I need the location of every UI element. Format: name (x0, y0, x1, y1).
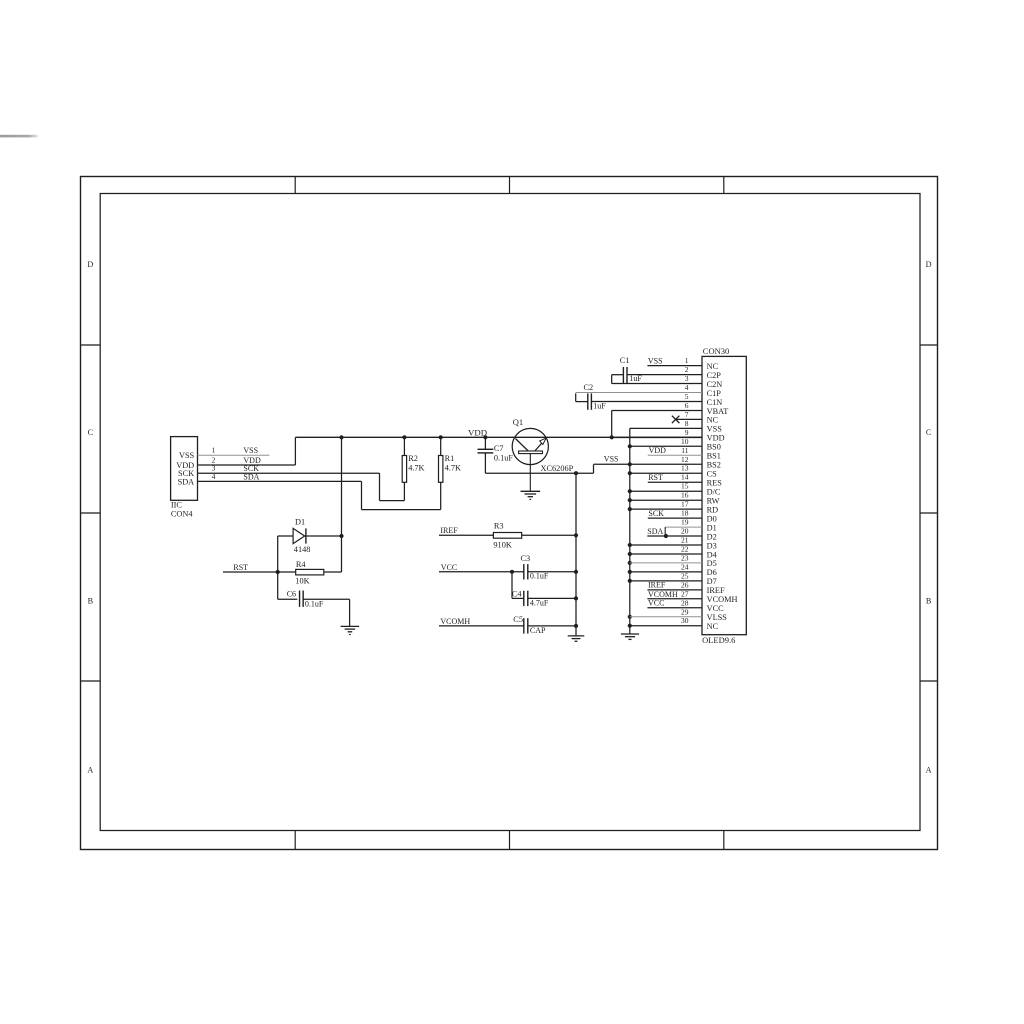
svg-text:R3: R3 (494, 521, 504, 530)
svg-text:VDD: VDD (707, 434, 725, 443)
svg-text:Q1: Q1 (513, 417, 523, 427)
svg-text:0.1uF: 0.1uF (530, 572, 549, 581)
svg-text:NC: NC (707, 416, 719, 425)
svg-text:11: 11 (681, 446, 688, 455)
svg-text:910K: 910K (493, 540, 511, 549)
svg-text:3: 3 (685, 374, 689, 383)
svg-text:C6: C6 (287, 590, 296, 599)
svg-text:9: 9 (685, 428, 689, 437)
svg-text:C7: C7 (494, 444, 504, 453)
svg-text:16: 16 (681, 491, 689, 500)
svg-text:25: 25 (681, 571, 689, 580)
svg-text:D1: D1 (295, 518, 305, 527)
svg-text:IIC: IIC (171, 501, 183, 510)
svg-text:B: B (88, 597, 94, 606)
svg-text:CAP: CAP (530, 626, 546, 635)
svg-text:C5: C5 (513, 615, 523, 624)
svg-text:BS1: BS1 (707, 452, 721, 461)
svg-text:4.7K: 4.7K (445, 463, 461, 472)
svg-text:4.7uF: 4.7uF (530, 598, 549, 607)
svg-text:B: B (926, 597, 932, 606)
svg-text:8: 8 (685, 419, 689, 428)
svg-text:C2P: C2P (707, 371, 722, 380)
svg-text:SDA: SDA (178, 477, 195, 486)
svg-text:7: 7 (685, 410, 689, 419)
svg-text:OLED9.6: OLED9.6 (702, 635, 735, 645)
svg-text:VCOMH: VCOMH (440, 617, 470, 626)
svg-text:C2: C2 (584, 383, 594, 392)
svg-text:15: 15 (681, 482, 689, 491)
svg-text:10K: 10K (295, 576, 309, 585)
svg-text:NC: NC (707, 622, 719, 631)
svg-text:C1N: C1N (707, 398, 723, 407)
svg-text:1uF: 1uF (593, 401, 606, 410)
svg-text:28: 28 (681, 598, 689, 607)
svg-text:2: 2 (685, 365, 689, 374)
svg-text:A: A (926, 766, 932, 775)
svg-text:27: 27 (681, 589, 689, 598)
svg-text:RD: RD (707, 505, 719, 514)
svg-text:D2: D2 (707, 532, 717, 541)
svg-text:D3: D3 (707, 541, 717, 550)
svg-text:VSS: VSS (648, 357, 663, 366)
svg-text:C1P: C1P (707, 389, 722, 398)
svg-text:D4: D4 (707, 550, 718, 559)
svg-text:D5: D5 (707, 559, 717, 568)
svg-text:0.1uF: 0.1uF (494, 453, 514, 462)
svg-text:1: 1 (685, 356, 689, 365)
svg-text:C: C (88, 428, 94, 437)
svg-text:C3: C3 (521, 554, 531, 563)
svg-text:D/C: D/C (707, 488, 721, 497)
svg-text:VCOMH: VCOMH (707, 595, 738, 604)
svg-text:10: 10 (681, 437, 689, 446)
svg-text:13: 13 (681, 464, 689, 473)
svg-text:D6: D6 (707, 568, 717, 577)
svg-text:17: 17 (681, 500, 689, 509)
svg-text:VSS: VSS (604, 455, 619, 464)
svg-text:R1: R1 (445, 454, 455, 463)
svg-text:C2N: C2N (707, 380, 723, 389)
svg-text:VSS: VSS (179, 451, 195, 460)
svg-text:VDD: VDD (649, 446, 667, 455)
svg-text:VSS: VSS (243, 446, 258, 455)
svg-text:RES: RES (707, 479, 723, 488)
svg-text:CON30: CON30 (703, 346, 729, 356)
svg-text:29: 29 (681, 607, 689, 616)
svg-text:R4: R4 (296, 560, 307, 569)
svg-text:BS0: BS0 (707, 443, 721, 452)
svg-text:IREF: IREF (440, 526, 458, 535)
svg-text:SDA: SDA (647, 527, 663, 536)
svg-text:26: 26 (681, 580, 689, 589)
svg-text:NC: NC (707, 362, 719, 371)
svg-text:R2: R2 (408, 454, 418, 463)
svg-text:RW: RW (707, 497, 720, 506)
svg-text:IREF: IREF (648, 581, 666, 590)
svg-text:1uF: 1uF (629, 374, 642, 383)
svg-text:BS2: BS2 (707, 461, 721, 470)
svg-text:19: 19 (681, 518, 689, 527)
svg-text:D0: D0 (707, 514, 717, 523)
svg-text:24: 24 (681, 562, 689, 571)
svg-text:VCOMH: VCOMH (648, 590, 678, 599)
svg-text:VCC: VCC (707, 604, 725, 613)
svg-text:0.1uF: 0.1uF (305, 599, 324, 608)
svg-text:23: 23 (681, 553, 689, 562)
svg-text:A: A (87, 766, 93, 775)
svg-text:CON4: CON4 (171, 510, 194, 519)
svg-text:4148: 4148 (294, 545, 311, 554)
svg-text:C: C (926, 428, 932, 437)
svg-text:RST: RST (648, 473, 663, 482)
svg-text:C1: C1 (620, 356, 630, 365)
svg-text:D7: D7 (707, 577, 717, 586)
svg-text:4.7K: 4.7K (408, 463, 424, 472)
svg-text:22: 22 (681, 545, 689, 554)
svg-text:VBAT: VBAT (707, 407, 729, 416)
svg-text:4: 4 (685, 383, 689, 392)
svg-text:1: 1 (212, 446, 216, 455)
svg-text:SCK: SCK (648, 509, 664, 518)
svg-text:VCC: VCC (648, 599, 664, 608)
svg-text:VSS: VSS (707, 425, 723, 434)
svg-text:14: 14 (681, 473, 689, 482)
svg-text:30: 30 (681, 616, 689, 625)
svg-text:XC6206P: XC6206P (541, 464, 574, 473)
svg-text:D: D (926, 260, 932, 269)
svg-text:21: 21 (681, 536, 689, 545)
svg-text:18: 18 (681, 509, 689, 518)
svg-text:C4: C4 (512, 589, 523, 598)
svg-text:RST: RST (233, 563, 248, 572)
svg-text:12: 12 (681, 455, 689, 464)
svg-text:20: 20 (681, 527, 689, 536)
svg-text:6: 6 (685, 401, 689, 410)
svg-text:IREF: IREF (707, 586, 725, 595)
svg-text:VCC: VCC (441, 563, 457, 572)
svg-text:CS: CS (707, 470, 718, 479)
svg-text:VLSS: VLSS (707, 613, 728, 622)
svg-text:5: 5 (685, 392, 689, 401)
svg-text:D1: D1 (707, 523, 717, 532)
svg-text:D: D (87, 260, 93, 269)
